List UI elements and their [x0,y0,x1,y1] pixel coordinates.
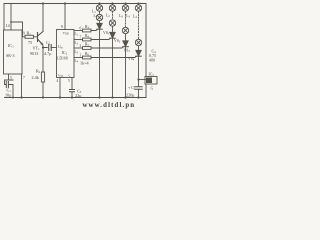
svg-text:7: 7 [23,76,25,80]
svg-text:VS4: VS4 [128,57,135,62]
svg-text:4.7μ: 4.7μ [44,51,52,56]
svg-text:L9: L9 [119,14,123,19]
junction dots [10,2,152,98]
svg-text:1: 1 [80,54,82,58]
svg-text:LD168: LD168 [57,57,68,61]
lamp L1 column1 top [99,4,101,5]
svg-text:C2: C2 [46,40,51,46]
svg-text:1k×4: 1k×4 [80,61,90,66]
svg-text:R4: R4 [85,34,90,39]
svg-text:L1: L1 [75,32,79,37]
resistor R6 row4 [74,57,83,59]
svg-text:L2: L2 [75,41,79,46]
svg-text:400: 400 [149,58,155,63]
svg-text:7: 7 [80,36,82,40]
resistor R2 2.4k vertical [42,48,44,73]
svg-text:L2: L2 [106,14,110,19]
wire right feed line [145,4,147,98]
svg-text:R2: R2 [36,69,41,75]
thyristor VS4 [138,46,140,51]
wire column4 dotted string [138,11,140,39]
IC2 box [57,30,75,78]
svg-text:L3: L3 [75,50,79,55]
svg-text:14: 14 [6,23,11,28]
thyristor VS2 [112,26,114,32]
thyristor VS3 [125,34,127,41]
wire IC1 pin7 to ground rail [21,74,23,98]
svg-text:220μ: 220μ [126,93,135,98]
svg-text:Uin: Uin [58,45,63,50]
svg-text:C: C [69,74,72,78]
wire top +V rail [4,3,146,5]
thyristor VS1 [99,21,101,24]
resistor R4 row2 [74,39,83,41]
svg-text:www.dltdl.pn: www.dltdl.pn [83,102,136,109]
wire IC2 top pin to rail [64,4,66,30]
svg-text:22μ: 22μ [75,93,82,98]
wire left rail drop to IC1 [3,4,5,31]
transistor VT1 [38,32,44,45]
resistor R5 row3 [74,47,83,49]
svg-text:8: 8 [61,25,63,29]
svg-text:VDD: VDD [63,31,69,36]
IC3 box [145,77,157,85]
wire R1 leads [23,36,38,38]
svg-text:IC2: IC2 [62,50,68,56]
svg-text:SK-3: SK-3 [6,53,14,58]
wire column3 dotted string [125,11,127,27]
svg-text:L4: L4 [75,59,79,64]
svg-text:L4: L4 [133,15,137,20]
svg-text:75: 75 [28,40,32,45]
lamp column2 second [109,20,115,26]
wire VT1 emitter node [43,45,48,48]
wire IC1 pin14 riser [10,4,12,31]
resistor R3 row1 [74,30,83,32]
IC1 box [4,30,23,74]
svg-text:6: 6 [80,27,82,31]
lamp column3 second [122,27,128,33]
lamp column4 top [138,4,140,5]
svg-text:VS2: VS2 [114,39,121,44]
svg-text:9: 9 [23,32,25,36]
wire VS4 node to IC3 [139,79,146,81]
svg-text:VSS: VSS [58,74,64,79]
lamp column2 top [112,4,114,5]
svg-text:5: 5 [10,76,12,80]
svg-text:L5: L5 [94,14,98,19]
wire column2 dotted string [112,11,114,20]
svg-text:G: G [151,87,154,91]
svg-text:R5: R5 [85,43,90,48]
wire VT1 collector to rail [42,4,44,32]
svg-text:R1: R1 [27,31,32,37]
capacitor C5 220u [138,80,140,87]
wire IC2 pin4 to ground [59,78,61,98]
svg-text:L3: L3 [126,14,130,19]
svg-text:2: 2 [80,44,82,48]
svg-text:IC1: IC1 [8,43,14,49]
wire bottom ground rail [5,97,147,99]
svg-text:2.4k: 2.4k [32,75,40,80]
svg-text:9013: 9013 [30,51,38,56]
svg-text:VS3: VS3 [124,49,131,54]
svg-text:4: 4 [57,79,59,83]
lamp column4 second [135,39,141,45]
wire IC1 pin5 stub [8,74,10,80]
lamp column3 top [125,4,127,5]
wire IC2 pin5 stub [71,78,73,90]
svg-text:+ C5: + C5 [128,86,136,91]
wire pin14 branch to R1 [11,22,23,37]
svg-text:VS1: VS1 [103,31,110,36]
svg-text:R6: R6 [85,52,90,57]
capacitor C2 coupling [49,45,52,51]
svg-text:R3: R3 [85,25,90,30]
svg-text:5: 5 [68,79,70,83]
capacitor C1 [5,80,14,98]
svg-text:10μ: 10μ [5,93,12,98]
lamp column1 second [99,11,101,14]
capacitor C3 22u [70,90,75,92]
svg-text:IC3: IC3 [149,73,155,78]
resistor R1 [25,35,34,38]
